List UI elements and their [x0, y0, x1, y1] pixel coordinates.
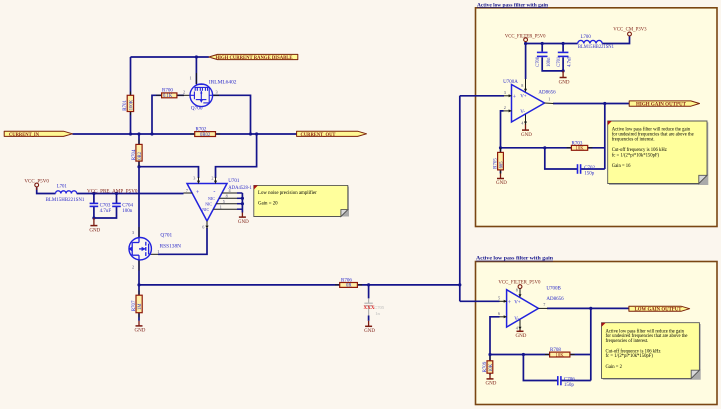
svg-text:Low noise precision amplifier: Low noise precision amplifier	[258, 191, 317, 196]
svg-text:0R2: 0R2	[138, 151, 143, 159]
svg-text:CURRENT_OUT: CURRENT_OUT	[301, 133, 337, 138]
svg-text:R705: R705	[494, 158, 499, 169]
svg-text:GND: GND	[496, 181, 507, 186]
pin 7 (OUT)	[538, 307, 547, 309]
svg-text:HIGH GAIN OUTPUT: HIGH GAIN OUTPUT	[636, 103, 687, 108]
svg-text:V+: V+	[514, 300, 521, 305]
resistor R700	[156, 89, 184, 99]
svg-text:1: 1	[157, 249, 159, 254]
svg-text:3: 3	[193, 175, 195, 180]
wire: C700 C701 decoupling	[541, 44, 543, 52]
svg-text:GND: GND	[364, 329, 375, 334]
capacitor C704	[112, 203, 133, 214]
node: R704/+in tap	[137, 165, 140, 168]
wire: U701 NIC bus to gnd	[241, 193, 243, 213]
svg-text:GND: GND	[238, 220, 249, 225]
pin 8 (V+)	[525, 79, 527, 92]
svg-text:-: -	[213, 189, 215, 195]
region box: active low pass filter (low gain)	[476, 256, 718, 405]
capacitor C701	[557, 52, 573, 67]
wire: C702 row	[545, 148, 577, 169]
svg-text:V-: V-	[520, 110, 525, 115]
node: U700A inv junction	[499, 146, 502, 149]
svg-text:fc = 1/(2*pi*10k*150pF): fc = 1/(2*pi*10k*150pF)	[606, 354, 654, 359]
svg-text:frequencies of interest.: frequencies of interest.	[606, 339, 649, 344]
inductor L700	[578, 35, 615, 50]
ground under C705	[364, 321, 375, 334]
node: rail/C701	[562, 42, 565, 45]
svg-text:LOW GAIN OUTPUT: LOW GAIN OUTPUT	[635, 308, 683, 313]
svg-text:IRLML6402: IRLML6402	[209, 80, 237, 86]
svg-text:R706: R706	[341, 278, 352, 283]
node: rail/C703	[92, 192, 95, 195]
wire: U700B output	[547, 307, 629, 309]
transistor Q701 RSS138N (N-MOSFET)	[128, 227, 181, 271]
svg-text:V-: V-	[514, 317, 519, 322]
resistor R704	[132, 140, 143, 166]
svg-text:3: 3	[216, 90, 218, 95]
svg-text:L700: L700	[581, 35, 592, 40]
svg-text:HIGH CURRENT RANGE DISABLE: HIGH CURRENT RANGE DISABLE	[216, 56, 293, 61]
node: bus/R700	[150, 132, 153, 135]
svg-text:R708: R708	[550, 348, 561, 353]
svg-text:1: 1	[220, 204, 222, 209]
svg-text:BLM15HB221SN1: BLM15HB221SN1	[578, 45, 614, 50]
svg-text:2: 2	[132, 264, 134, 269]
port LOW GAIN OUTPUT	[629, 306, 690, 313]
resistor R701	[123, 92, 134, 116]
svg-text:C701: C701	[557, 56, 562, 67]
node: C706 branch	[522, 353, 525, 356]
capacitor C703	[90, 203, 112, 214]
capacitor C700	[536, 52, 552, 67]
svg-text:NIC: NIC	[202, 207, 209, 212]
wire: R707 to gnd	[138, 285, 140, 321]
pin 2	[504, 110, 512, 112]
svg-text:3: 3	[504, 90, 506, 95]
wire: C706 row	[523, 355, 557, 381]
svg-text:C702: C702	[584, 166, 595, 171]
transistor Q700 IRLML6402 (P-MOSFET)	[183, 73, 237, 112]
capacitor C706	[558, 376, 575, 388]
svg-text:C705: C705	[374, 305, 385, 310]
wire: Q700 source to bus	[213, 95, 251, 134]
op-amp U700B AD8656	[498, 286, 564, 330]
svg-text:4.7uF: 4.7uF	[100, 209, 112, 214]
node: rail/C705	[367, 283, 370, 286]
port CURRENT_IN	[4, 131, 72, 138]
svg-text:GND: GND	[89, 229, 100, 234]
svg-text:VCC_FILTER_P5V0: VCC_FILTER_P5V0	[498, 280, 540, 286]
ground under C703	[89, 218, 100, 234]
svg-text:XXX: XXX	[363, 305, 374, 311]
wire: U700A pin2 loop	[501, 111, 504, 148]
svg-text:V+: V+	[520, 95, 527, 100]
svg-text:U700A: U700A	[503, 80, 518, 85]
wire: VCC_FILTER rail top block	[525, 42, 527, 79]
op-amp U700A AD8656	[503, 79, 556, 126]
svg-text:ADA4528-1: ADA4528-1	[228, 186, 252, 191]
note: low noise precision amplifier	[254, 185, 349, 216]
node: rail/C700	[541, 42, 544, 45]
svg-text:5: 5	[498, 295, 500, 300]
wire: C705 branch	[368, 285, 370, 299]
svg-text:AD8656: AD8656	[538, 91, 556, 96]
svg-text:8: 8	[226, 194, 228, 199]
pin 3 (+IN)	[198, 177, 200, 184]
port HIGH GAIN OUTPUT	[629, 101, 699, 108]
svg-text:VCC_PRE_AMP_P5V0: VCC_PRE_AMP_P5V0	[87, 188, 138, 194]
wire: R709 to gnd	[489, 355, 491, 361]
svg-text:Q701: Q701	[160, 233, 172, 239]
resistor R707	[132, 291, 143, 318]
node: bus/R704	[137, 132, 140, 135]
wire: feedback R708 row	[490, 354, 550, 356]
region box: active low pass filter (high gain)	[476, 2, 718, 226]
svg-text:100n: 100n	[547, 57, 552, 67]
svg-text:VCC_P5V0: VCC_P5V0	[24, 178, 49, 184]
node: rail/filter feed	[458, 283, 461, 286]
svg-text:C706: C706	[564, 377, 575, 382]
svg-text:frequencies of interest.: frequencies of interest.	[612, 137, 655, 142]
node: rail/R707	[137, 283, 140, 286]
wire: U701 output to Q701 gate	[158, 228, 207, 254]
svg-text:R704: R704	[132, 149, 137, 160]
svg-text:7: 7	[186, 188, 188, 193]
port HIGH CURRENT RANGE DISABLE	[209, 54, 298, 61]
wire: inverting input tap	[216, 134, 257, 178]
svg-text:VCC_FILTER_P5V0: VCC_FILTER_P5V0	[505, 33, 546, 39]
svg-text:Cut-off frequency is 106 kHz: Cut-off frequency is 106 kHz	[612, 148, 667, 153]
svg-text:3: 3	[132, 230, 134, 235]
node: bus/Q700 source	[249, 132, 252, 135]
power port VCC_FILTER_P5V0 (bottom)	[498, 280, 540, 289]
svg-text:100n: 100n	[122, 209, 133, 214]
wire: R704 / Q701 drain column	[138, 134, 140, 238]
op-amp U701 ADA4528-1	[184, 175, 253, 229]
ground under U700B pin4	[516, 330, 527, 340]
ground under R707	[135, 321, 146, 334]
power port VCC_CM_P3V3	[613, 27, 646, 36]
wire: R700 branch	[152, 95, 184, 134]
resistor R709	[483, 356, 494, 378]
wire: non-inverting input tap	[139, 167, 199, 178]
wire: R701 column	[130, 57, 132, 134]
pin 2 (-IN)	[215, 177, 217, 184]
wire: Q700 drain drop	[195, 57, 197, 84]
wire: HIGH CURRENT RANGE DISABLE net	[131, 56, 209, 58]
svg-text:AD8656: AD8656	[546, 297, 564, 302]
ground under C701	[559, 71, 570, 85]
note: low gain filter explanation	[602, 323, 701, 380]
pin 3	[504, 95, 512, 97]
svg-text:VCC_CM_P3V3: VCC_CM_P3V3	[613, 27, 646, 33]
node: bus/R701	[129, 132, 132, 135]
pin 6	[500, 316, 507, 318]
wire: feedback R703 row	[501, 147, 572, 149]
svg-text:665: 665	[500, 161, 505, 169]
pin 4 (V-)	[525, 115, 527, 125]
svg-text:L701: L701	[57, 185, 68, 190]
ground under U700A pin4	[521, 124, 532, 138]
svg-text:C700: C700	[536, 56, 541, 67]
svg-text:5: 5	[223, 199, 225, 204]
svg-text:C704: C704	[122, 203, 133, 208]
svg-text:Q700: Q700	[191, 106, 203, 112]
pin 6 (OUT)	[206, 221, 208, 229]
svg-text:0R: 0R	[346, 284, 352, 289]
svg-text:Gain = 2: Gain = 2	[606, 365, 623, 370]
inductor L701	[46, 185, 85, 203]
svg-text:6: 6	[202, 224, 204, 229]
node: vcc filter rail	[524, 42, 527, 45]
capacitor C702	[578, 164, 596, 176]
svg-text:0R02: 0R02	[200, 133, 211, 138]
wire: VCC_PRE_AMP rail	[37, 188, 56, 194]
resistor R703	[567, 141, 593, 151]
svg-text:Active low pass filter with ga: Active low pass filter with gain	[476, 256, 554, 262]
svg-text:2: 2	[504, 105, 506, 110]
svg-text:1: 1	[548, 97, 550, 102]
svg-text:1M: 1M	[138, 303, 143, 310]
svg-text:2: 2	[183, 90, 185, 95]
svg-text:Gain = 16: Gain = 16	[612, 164, 631, 169]
wire: feed to both filter stages	[459, 96, 461, 301]
pin 4 (V-)	[519, 320, 521, 330]
svg-text:U700B: U700B	[546, 286, 561, 291]
svg-text:GND: GND	[516, 334, 527, 339]
wire: U700B pin6 loop	[490, 317, 500, 355]
node: C702 branch	[543, 146, 546, 149]
svg-text:7: 7	[543, 302, 545, 307]
pin 8 (V+)	[519, 288, 521, 297]
resistor R706	[335, 278, 362, 288]
svg-text:6: 6	[498, 311, 500, 316]
svg-text:fc = 1/(2*pi*10k*150pF): fc = 1/(2*pi*10k*150pF)	[612, 154, 660, 159]
svg-text:CURRENT_IN: CURRENT_IN	[9, 133, 40, 138]
resistor R705	[494, 148, 505, 175]
svg-text:0.1K: 0.1K	[163, 94, 173, 99]
svg-text:100K: 100K	[129, 99, 134, 110]
svg-text:10K: 10K	[576, 147, 585, 152]
svg-text:BLM15HB221SN1: BLM15HB221SN1	[46, 198, 85, 203]
wire: U700A output	[553, 103, 629, 105]
svg-text:NIC: NIC	[208, 196, 215, 201]
svg-text:NIC: NIC	[205, 202, 212, 207]
ground for U701 NIC bus	[238, 213, 249, 225]
port CURRENT_OUT	[297, 131, 367, 138]
ground under R705	[496, 174, 507, 187]
svg-text:C703: C703	[100, 203, 111, 208]
svg-text:8: 8	[521, 83, 523, 88]
svg-text:1: 1	[190, 76, 192, 81]
power port VCC_P5V0	[24, 178, 49, 190]
svg-text:4.7uF: 4.7uF	[568, 56, 573, 67]
svg-text:R709: R709	[483, 361, 488, 372]
wire: Q701 source down	[138, 260, 140, 285]
node: disable/drain junction	[195, 55, 198, 58]
ground under R709	[486, 375, 497, 387]
wire: low side rail to filters	[139, 284, 460, 286]
node: output A feedback	[603, 102, 606, 105]
wire: R705 to gnd	[500, 148, 502, 153]
svg-text:150p: 150p	[584, 171, 595, 176]
svg-text:1n: 1n	[375, 311, 380, 316]
power port VCC_FILTER_P5V0 (top)	[505, 33, 546, 41]
svg-text:R703: R703	[572, 141, 583, 146]
wire: C703 C704 decoupling	[93, 194, 95, 204]
svg-text:GND: GND	[559, 80, 570, 85]
node: C703 gnd link	[92, 216, 95, 219]
pin 5	[500, 300, 507, 302]
node: U700B inv junction	[488, 353, 491, 356]
node: output B feedback	[589, 307, 592, 310]
svg-text:R700: R700	[162, 89, 173, 94]
svg-text:U701: U701	[228, 179, 240, 184]
svg-text:10K: 10K	[556, 353, 565, 358]
right side pins 4,8,5,1	[222, 192, 237, 194]
node: bus/inv tap	[255, 132, 258, 135]
pin 7 (V+)	[184, 192, 193, 194]
node: C701 gnd link	[562, 69, 565, 72]
svg-text:Active low pass filter with ga: Active low pass filter with gain	[477, 2, 549, 8]
svg-text:GND: GND	[135, 329, 146, 334]
capacitor C705 (not fitted, greyed)	[363, 298, 384, 316]
pin 1 (OUT)	[545, 102, 554, 105]
resistor R702	[190, 128, 220, 138]
svg-text:8: 8	[516, 288, 518, 293]
svg-text:R707: R707	[132, 300, 137, 311]
svg-text:GND: GND	[521, 133, 532, 138]
svg-text:R701: R701	[123, 99, 128, 110]
svg-text:150p: 150p	[564, 383, 575, 388]
svg-text:Gain = 20: Gain = 20	[258, 202, 278, 207]
svg-text:2: 2	[211, 175, 213, 180]
svg-text:10K: 10K	[489, 363, 494, 372]
resistor R708	[545, 348, 575, 358]
wire: main current bus	[72, 133, 296, 135]
svg-text:RSS138N: RSS138N	[160, 243, 182, 249]
svg-text:GND: GND	[486, 382, 497, 387]
node: rail/C704	[115, 192, 118, 195]
note: high gain filter explanation	[608, 121, 709, 185]
